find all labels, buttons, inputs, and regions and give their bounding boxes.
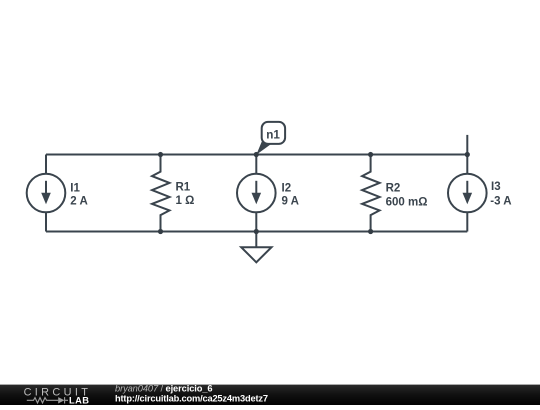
junction bottom R1 [158, 229, 163, 234]
svg-text:2 A: 2 A [70, 196, 87, 208]
current source I1 [27, 155, 66, 232]
svg-text:I2: I2 [282, 183, 292, 195]
svg-text:R1: R1 [176, 182, 191, 194]
svg-text:600 mΩ: 600 mΩ [386, 196, 428, 208]
credits [115, 383, 268, 403]
resistor R1 [152, 155, 170, 232]
svg-text:http://circuitlab.com/ca25z4m3: http://circuitlab.com/ca25z4m3detz7 [115, 394, 268, 404]
current source I2 [237, 155, 276, 232]
node n1 label [256, 122, 285, 155]
junction top R2 [368, 152, 373, 157]
CircuitLab logo [24, 387, 92, 406]
wire stub above I3 [466, 135, 468, 155]
wire top bus [46, 154, 467, 156]
svg-text:n1: n1 [266, 128, 280, 141]
junction bottom R2 [368, 229, 373, 234]
junction bottom I2/ground [254, 229, 259, 234]
junction top R1 [158, 152, 163, 157]
svg-text:-3 A: -3 A [490, 196, 511, 208]
svg-text:LAB: LAB [69, 396, 89, 405]
svg-text:bryan0407 / ejercicio_6: bryan0407 / ejercicio_6 [115, 383, 212, 393]
junction top I3 [465, 152, 470, 157]
svg-text:I1: I1 [70, 183, 80, 195]
labels [70, 181, 511, 208]
resistor R2 [362, 155, 380, 232]
current source I3 [448, 155, 487, 232]
svg-text:I3: I3 [491, 181, 501, 193]
junction top I2 (node n1) [254, 152, 259, 157]
ground [241, 232, 271, 263]
wire bottom bus [46, 231, 467, 233]
svg-text:9 A: 9 A [282, 196, 299, 208]
svg-text:R2: R2 [386, 183, 401, 195]
svg-text:1 Ω: 1 Ω [176, 195, 195, 207]
